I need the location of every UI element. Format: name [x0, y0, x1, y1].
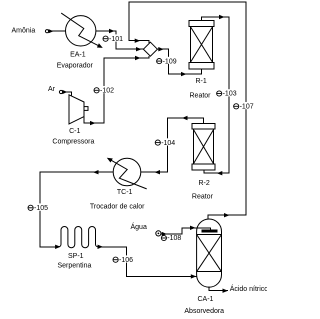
wire S-103 (R-1 to R-2)	[201, 17, 229, 173]
feed Ar	[59, 90, 67, 94]
wire product Ácido nítrico	[209, 287, 228, 291]
reactor R-1	[189, 21, 214, 69]
svg-text:EA-1: EA-1	[70, 52, 86, 59]
svg-text:Água: Água	[131, 222, 147, 231]
wire Amônia to EA-1	[49, 30, 66, 32]
svg-text:SP-1: SP-1	[68, 253, 84, 260]
label S-103	[216, 89, 237, 98]
svg-text:-108: -108	[167, 235, 181, 242]
label S-109	[156, 57, 177, 66]
svg-text:Amônia: Amônia	[12, 28, 36, 35]
svg-text:TC-1: TC-1	[117, 189, 133, 196]
heat exchanger TC-1	[107, 158, 147, 189]
svg-text:-107: -107	[240, 104, 254, 111]
svg-text:Absorvedora: Absorvedora	[184, 308, 224, 315]
wire S-102 (C-1 to mixer)	[84, 58, 141, 123]
wire S-104 (R-2 to TC-1)	[141, 118, 204, 172]
label S-108	[161, 235, 181, 242]
svg-text:-102: -102	[100, 88, 114, 95]
label S-104	[154, 138, 175, 147]
svg-text:R-1: R-1	[196, 78, 207, 85]
svg-text:Trocador de calor: Trocador de calor	[90, 203, 145, 210]
label S-102	[93, 86, 114, 95]
svg-text:Ácido nítrico: Ácido nítrico	[230, 284, 267, 293]
svg-text:Serpentina: Serpentina	[58, 263, 92, 270]
feed Água	[156, 231, 167, 236]
wire S-109 (mixer to R-1)	[157, 49, 201, 74]
evaporator EA-1	[61, 13, 103, 48]
svg-text:Reator: Reator	[190, 92, 212, 99]
svg-text:-104: -104	[161, 140, 175, 147]
svg-text:-109: -109	[163, 58, 177, 65]
reactor R-2	[192, 123, 215, 170]
label S-106	[112, 255, 133, 264]
svg-text:Reator: Reator	[192, 193, 214, 200]
svg-text:-101: -101	[109, 36, 123, 43]
absorber CA-1	[197, 219, 222, 287]
label S-101	[102, 34, 123, 43]
wire S-107 recycle (CA-1 top to mixer)	[129, 2, 246, 219]
feed Amônia	[45, 29, 53, 33]
svg-text:CA-1: CA-1	[198, 296, 214, 303]
wire S-101 (EA-1 to mixer)	[96, 31, 143, 49]
svg-text:-106: -106	[119, 257, 133, 264]
compressor C-1	[69, 95, 88, 124]
mixer diamond	[143, 42, 157, 56]
wire S-105 (TC-1 to SP-1)	[40, 172, 113, 247]
wire Ar to C-1	[63, 92, 72, 95]
svg-text:-105: -105	[34, 205, 48, 212]
svg-text:Ar: Ar	[48, 86, 56, 93]
svg-text:R-2: R-2	[199, 180, 210, 187]
svg-text:Evaporador: Evaporador	[57, 62, 94, 69]
svg-text:C-1: C-1	[69, 128, 80, 135]
label S-105	[27, 203, 48, 212]
svg-text:Compressora: Compressora	[52, 139, 94, 146]
label S-107	[233, 102, 254, 111]
coil SP-1	[59, 226, 99, 247]
wire S-108 (Água to CA-1)	[161, 228, 211, 234]
wire S-106 (SP-1 to CA-1)	[98, 247, 196, 277]
svg-text:-103: -103	[223, 91, 237, 98]
